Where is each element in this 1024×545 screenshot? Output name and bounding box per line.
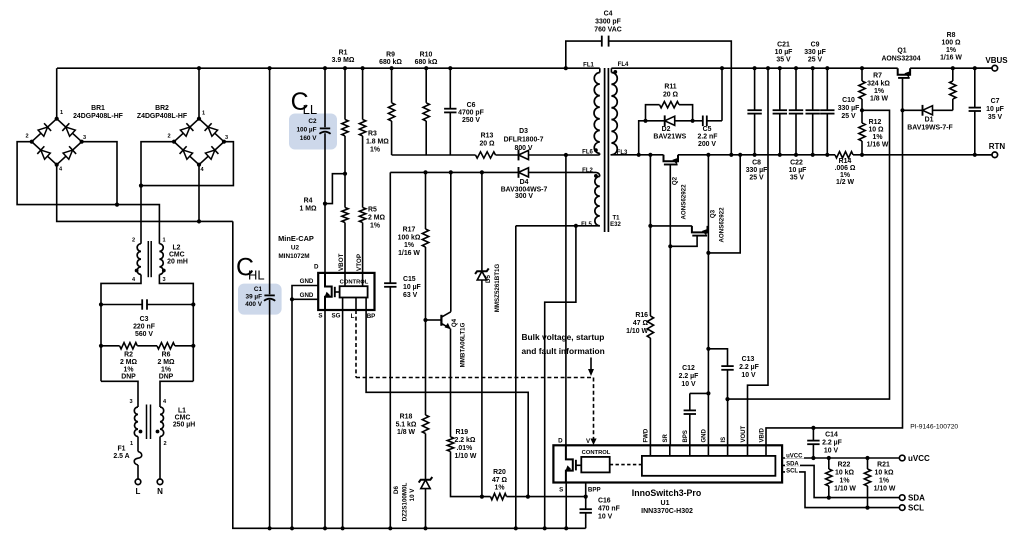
svg-text:100 µF: 100 µF: [296, 127, 316, 134]
svg-text:47 Ω: 47 Ω: [492, 477, 508, 484]
svg-text:25 V: 25 V: [841, 113, 856, 120]
terminal RTN: [975, 154, 992, 156]
wire Q3 drain line: [650, 225, 692, 227]
svg-text:300 V: 300 V: [515, 193, 533, 200]
resistor R2: [101, 345, 120, 347]
svg-text:25 V: 25 V: [749, 175, 764, 182]
resistor R11: [646, 105, 660, 121]
resistor R9: [391, 68, 393, 103]
wire R1/R4 junction to D node: [325, 174, 345, 204]
svg-text:760 VAC: 760 VAC: [594, 27, 621, 34]
wire U1 BPP pin: [585, 483, 587, 510]
svg-text:2: 2: [25, 134, 28, 140]
svg-text:1/10 W: 1/10 W: [455, 453, 477, 460]
svg-text:CMC: CMC: [169, 252, 185, 259]
node junctions on bias line: [423, 170, 427, 174]
wire L2 pin3 to filter loop right: [159, 275, 193, 382]
svg-text:39 µF: 39 µF: [246, 294, 263, 301]
svg-text:4700 pF: 4700 pF: [458, 110, 484, 117]
svg-text:F1: F1: [117, 446, 125, 453]
wire FL5 jog to ground rail: [545, 226, 576, 529]
node R1/R4 junction: [343, 172, 347, 176]
svg-text:C2: C2: [308, 118, 317, 125]
wire BR2 pin3 to AC node: [141, 142, 233, 186]
svg-text:800 V: 800 V: [514, 145, 532, 152]
wire U2 S pin to ground: [324, 310, 326, 528]
svg-text:10 V: 10 V: [741, 372, 756, 379]
wire primary ground bottom rail: [233, 221, 586, 528]
svg-text:47 Ω: 47 Ω: [633, 320, 649, 327]
capacitor C9: [812, 68, 814, 110]
wire U1 drain riser: [565, 155, 567, 445]
svg-text:220 nF: 220 nF: [133, 324, 155, 331]
svg-text:BR2: BR2: [155, 105, 169, 112]
svg-text:324 kΩ: 324 kΩ: [867, 81, 890, 88]
svg-text:2 MΩ: 2 MΩ: [120, 359, 137, 366]
svg-text:R22: R22: [838, 462, 851, 469]
U1 internal interface block: [642, 456, 776, 476]
svg-text:S: S: [318, 313, 322, 320]
capacitor C16: [580, 508, 592, 510]
svg-text:100 Ω: 100 Ω: [942, 40, 961, 47]
diode D1: [903, 109, 953, 111]
svg-text:C8: C8: [752, 160, 761, 167]
svg-text:R7: R7: [873, 73, 882, 80]
resistor R20: [491, 493, 507, 499]
node junctions on B+ bus: [197, 66, 201, 70]
svg-text:E32: E32: [610, 222, 621, 228]
svg-text:BP: BP: [367, 313, 376, 320]
svg-text:R6: R6: [162, 352, 171, 359]
svg-text:SR: SR: [663, 433, 669, 442]
svg-text:3: 3: [129, 399, 132, 405]
svg-text:L: L: [351, 313, 355, 320]
svg-text:Q3: Q3: [710, 209, 717, 218]
svg-text:.006 Ω: .006 Ω: [835, 165, 856, 172]
svg-text:680 kΩ: 680 kΩ: [415, 59, 438, 66]
capacitor C21: [779, 68, 781, 110]
svg-text:680 kΩ: 680 kΩ: [379, 59, 402, 66]
svg-text:D3: D3: [519, 128, 528, 135]
dashed link control to interface block: [610, 464, 642, 466]
transistor Q3 SR FET: [692, 226, 708, 233]
transformer T1 core: [604, 68, 606, 232]
svg-text:HL: HL: [248, 267, 265, 282]
svg-text:VBOT: VBOT: [338, 253, 345, 271]
svg-text:MMSZ5261BT1G: MMSZ5261BT1G: [494, 264, 501, 313]
svg-text:AONS62922: AONS62922: [681, 184, 688, 220]
svg-text:R9: R9: [386, 52, 395, 59]
resistor R10: [425, 68, 427, 103]
U2 internal control block: [340, 286, 368, 297]
svg-text:1%: 1%: [370, 223, 380, 230]
svg-text:and fault information: and fault information: [522, 346, 605, 356]
node D/C2 junction: [323, 202, 327, 206]
svg-text:Q2: Q2: [672, 176, 679, 185]
svg-text:DFLR1800-7: DFLR1800-7: [504, 137, 544, 144]
svg-text:1%: 1%: [874, 88, 884, 95]
svg-text:1 MΩ: 1 MΩ: [299, 206, 316, 213]
node Q4 base junction: [423, 318, 427, 322]
svg-text:uVCC: uVCC: [908, 454, 930, 463]
transformer T1 secondary winding FL4-FL3: [610, 68, 612, 72]
svg-text:DNP: DNP: [121, 374, 136, 381]
resistor R8: [952, 99, 954, 110]
svg-text:C7: C7: [991, 98, 1000, 105]
inductor L1 CMC: [134, 407, 138, 437]
svg-text:FL1: FL1: [583, 63, 594, 69]
svg-text:L2: L2: [172, 245, 180, 252]
svg-text:35 V: 35 V: [790, 175, 805, 182]
wire U2 GND pins to ground: [292, 286, 318, 300]
resistor R5: [359, 208, 365, 223]
svg-text:BPS: BPS: [683, 430, 689, 442]
svg-text:R5: R5: [368, 207, 377, 214]
wire BR1 pin2 to AC node (left loop): [17, 142, 159, 244]
svg-text:MinE-CAP: MinE-CAP: [278, 234, 314, 243]
svg-text:2.2 µF: 2.2 µF: [679, 373, 699, 380]
wire Q1 gate line: [902, 78, 904, 110]
resistor R14 shunt: [835, 152, 853, 158]
svg-text:LL: LL: [303, 102, 317, 117]
svg-text:R13: R13: [481, 133, 494, 140]
svg-text:BAV19WS-7-F: BAV19WS-7-F: [907, 125, 952, 132]
svg-text:D2: D2: [662, 126, 671, 133]
svg-text:InnoSwitch3-Pro: InnoSwitch3-Pro: [632, 488, 702, 498]
wire SCL: [782, 472, 899, 508]
svg-text:330 µF: 330 µF: [804, 49, 826, 56]
resistor R22: [828, 458, 830, 469]
transistor Q4: [426, 319, 442, 321]
svg-text:1/8 W: 1/8 W: [397, 429, 415, 436]
wire B+ top bus (primary): [57, 67, 600, 69]
svg-text:1%: 1%: [879, 478, 889, 485]
svg-text:IS: IS: [721, 437, 727, 443]
capacitor C10: [826, 68, 828, 110]
resistor R21: [867, 458, 869, 469]
svg-text:1/2 W: 1/2 W: [836, 179, 854, 186]
resistor R1: [344, 68, 346, 119]
svg-text:Bulk voltage, startup: Bulk voltage, startup: [522, 332, 605, 342]
svg-text:200 V: 200 V: [698, 141, 716, 148]
wire BR2 pin2 down to L2 pin 2: [141, 142, 174, 244]
inductor L2 CMC: [137, 244, 141, 275]
U2 internal MOSFET: [325, 273, 332, 310]
svg-text:C1: C1: [254, 286, 263, 293]
svg-text:C9: C9: [811, 42, 820, 49]
svg-text:VTOP: VTOP: [356, 254, 363, 271]
svg-text:10 V: 10 V: [681, 381, 696, 388]
wire BR1 pin1 to B+ bus: [56, 68, 58, 119]
transformer T1 primary winding FL1-FL6: [599, 68, 601, 72]
wire Q3 source / GND return: [707, 155, 709, 446]
svg-text:1/16 W: 1/16 W: [867, 142, 889, 149]
svg-text:CMC: CMC: [175, 415, 191, 422]
capacitor C6: [449, 68, 451, 109]
svg-text:160 V: 160 V: [300, 135, 317, 142]
capacitor C7: [974, 68, 976, 107]
svg-text:R19: R19: [456, 429, 469, 436]
wire uVCC: [782, 457, 899, 459]
svg-text:1%: 1%: [873, 134, 883, 141]
wire snubber left leg: [639, 121, 646, 155]
svg-text:.01%: .01%: [457, 445, 473, 452]
svg-text:10 Ω: 10 Ω: [868, 127, 884, 134]
svg-text:C3: C3: [140, 316, 149, 323]
svg-text:VB/D: VB/D: [760, 427, 766, 442]
capacitor C2 (highlighted): [324, 68, 326, 127]
svg-text:25 V: 25 V: [808, 57, 823, 64]
svg-text:R11: R11: [664, 84, 676, 91]
svg-text:R1: R1: [339, 50, 348, 57]
highlight box for C1: [238, 284, 282, 315]
svg-text:Q1: Q1: [897, 48, 906, 55]
svg-text:FL2: FL2: [582, 168, 593, 174]
svg-text:2.2 µF: 2.2 µF: [739, 364, 759, 371]
diode D4: [519, 168, 529, 177]
svg-text:SCL: SCL: [908, 504, 924, 513]
terminal N: [157, 479, 163, 485]
svg-text:2.5 A: 2.5 A: [113, 453, 129, 460]
node junctions on bottom rail: [268, 526, 272, 530]
svg-text:1: 1: [130, 441, 133, 447]
wire L1 pin2 to N terminal: [159, 437, 161, 480]
svg-text:250 µH: 250 µH: [173, 422, 195, 429]
wire BR2 pin4 down: [198, 165, 200, 221]
svg-text:35 V: 35 V: [776, 57, 791, 64]
capacitor C13: [706, 347, 710, 351]
svg-text:C12: C12: [682, 365, 695, 372]
resistor R3: [362, 68, 364, 119]
svg-text:AONS62922: AONS62922: [719, 207, 726, 243]
svg-text:470 nF: 470 nF: [598, 506, 620, 513]
svg-text:DNP: DNP: [159, 374, 174, 381]
transformer T1 bias winding FL2-FL5: [595, 176, 600, 225]
svg-text:100 kΩ: 100 kΩ: [398, 234, 421, 241]
fuse F1: [137, 437, 139, 452]
svg-text:20 Ω: 20 Ω: [663, 92, 679, 99]
wire C15 branch: [391, 154, 393, 156]
svg-text:20 mH: 20 mH: [167, 259, 188, 266]
wire FWD line: [649, 155, 651, 316]
svg-text:3.9 MΩ: 3.9 MΩ: [332, 57, 355, 64]
svg-text:2 MΩ: 2 MΩ: [157, 359, 174, 366]
resistor R13: [476, 152, 496, 158]
capacitor C4 (Y-cap): [566, 41, 602, 68]
svg-text:330 µF: 330 µF: [838, 105, 860, 112]
svg-text:R2: R2: [124, 352, 133, 359]
svg-text:10 V: 10 V: [598, 514, 613, 521]
svg-text:T1: T1: [612, 216, 620, 222]
wire filter loop to L1 pin4: [160, 381, 193, 407]
capacitor C5: [693, 120, 703, 122]
svg-text:1.8 MΩ: 1.8 MΩ: [366, 139, 389, 146]
svg-text:1%: 1%: [124, 366, 134, 373]
wire VOUT sense divider line: [728, 110, 890, 399]
wire U2 BP pin to R20: [366, 298, 528, 497]
U1 internal control block: [581, 457, 609, 473]
capacitor C1 (highlighted): [269, 68, 271, 294]
svg-text:10 µF: 10 µF: [986, 106, 1004, 113]
svg-text:C14: C14: [825, 432, 838, 439]
terminal L: [135, 479, 141, 485]
svg-text:SDA: SDA: [908, 494, 925, 503]
bridge rectifier BR1: [32, 119, 82, 165]
wire L2 pin4 to filter loop left: [101, 275, 141, 382]
resistor R7: [861, 68, 863, 81]
svg-text:L: L: [136, 487, 141, 496]
wire U1 S pin to ground: [565, 483, 567, 529]
svg-text:MMBTA06LT1G: MMBTA06LT1G: [460, 322, 467, 367]
svg-text:R8: R8: [947, 32, 956, 39]
wire filter loop to L1 pin3: [101, 381, 138, 407]
svg-text:3300 pF: 3300 pF: [595, 19, 621, 26]
svg-text:U2: U2: [291, 245, 300, 252]
svg-text:2.2 kΩ: 2.2 kΩ: [455, 437, 476, 444]
svg-text:CONTROL: CONTROL: [340, 280, 369, 286]
svg-text:FL6: FL6: [582, 150, 593, 156]
zener diode D5: [481, 172, 483, 271]
svg-text:Q4: Q4: [451, 318, 458, 327]
annotation arrow: [590, 358, 592, 370]
svg-text:1: 1: [60, 110, 63, 116]
wire BR2 pin1 to B+ bus: [198, 68, 200, 119]
wire SDA: [782, 465, 899, 497]
svg-text:R3: R3: [368, 131, 377, 138]
resistor R12: [861, 110, 863, 123]
resistor R18: [422, 415, 428, 434]
svg-text:2.2 µF: 2.2 µF: [822, 440, 842, 447]
svg-text:FL5: FL5: [581, 222, 592, 228]
svg-text:5.1 kΩ: 5.1 kΩ: [396, 422, 417, 429]
svg-text:SDA: SDA: [786, 461, 799, 467]
svg-text:560 V: 560 V: [135, 331, 153, 338]
svg-text:CONTROL: CONTROL: [582, 450, 611, 456]
svg-text:DZ2S100M0L: DZ2S100M0L: [402, 483, 409, 522]
svg-text:400 V: 400 V: [245, 301, 262, 308]
svg-text:D4: D4: [520, 179, 529, 186]
zener diode D6: [425, 470, 427, 480]
node FL5 jog junction: [574, 224, 578, 228]
svg-text:C10: C10: [842, 97, 855, 104]
svg-text:330 µF: 330 µF: [746, 167, 768, 174]
resistor R6: [157, 343, 175, 349]
wire BR1/BR2 pin4 negative to bottom rail: [57, 165, 233, 222]
terminal VBUS: [975, 67, 992, 69]
svg-text:R20: R20: [493, 469, 506, 476]
resistor R19: [447, 437, 453, 452]
transistor Q1 load switch: [898, 68, 910, 75]
capacitor C12 on BPS: [689, 414, 691, 445]
svg-text:D: D: [314, 264, 319, 271]
svg-text:BAV21WS: BAV21WS: [653, 134, 686, 141]
svg-text:GND: GND: [300, 278, 314, 285]
svg-text:AONS32304: AONS32304: [881, 56, 920, 63]
svg-text:10 µF: 10 µF: [789, 167, 807, 174]
svg-text:C16: C16: [598, 498, 611, 505]
svg-text:20 Ω: 20 Ω: [479, 141, 495, 148]
transistor Q2 SR FET: [664, 155, 679, 162]
svg-text:35 V: 35 V: [988, 114, 1003, 121]
wire Q2 gate to SR line: [669, 165, 671, 247]
IC U2 MinE-CAP outline: [318, 273, 374, 310]
svg-text:SCL: SCL: [786, 468, 798, 474]
wire output+ top bus (secondary): [611, 67, 897, 69]
dashed wire U2 L pin to U1 V pin: [356, 377, 594, 379]
wire BR1 pin3 to AC node: [82, 142, 117, 205]
U1 top pin stubs: [649, 445, 651, 456]
IC U1 InnoSwitch3-Pro outline: [553, 445, 782, 482]
svg-text:C22: C22: [790, 160, 803, 167]
svg-text:1%: 1%: [946, 47, 956, 54]
svg-text:1%: 1%: [370, 147, 380, 154]
diode D2: [646, 120, 693, 122]
bridge rectifier BR2: [174, 119, 224, 165]
highlight box for C2: [289, 114, 337, 150]
svg-text:D5: D5: [485, 274, 492, 282]
svg-text:1/10 W: 1/10 W: [626, 328, 648, 335]
diode D3: [519, 150, 529, 159]
wire RTN / SR-drain horizontal rail: [611, 154, 664, 156]
capacitor C14: [812, 428, 814, 441]
svg-text:FL4: FL4: [618, 62, 629, 68]
svg-text:FL3: FL3: [617, 150, 628, 156]
svg-text:63 V: 63 V: [403, 292, 418, 299]
svg-text:2.2 nF: 2.2 nF: [698, 134, 718, 141]
svg-text:FWD: FWD: [643, 428, 649, 442]
svg-text:1%: 1%: [404, 242, 414, 249]
svg-text:R4: R4: [304, 198, 313, 205]
svg-text:PI-9146-100720: PI-9146-100720: [910, 424, 958, 431]
wire FL5 to primary ground: [516, 225, 600, 227]
svg-text:U1: U1: [661, 500, 670, 507]
svg-text:C6: C6: [467, 102, 476, 109]
svg-text:VOUT: VOUT: [741, 425, 747, 442]
svg-text:SG: SG: [332, 313, 341, 320]
wire IS pin to sense line: [727, 399, 729, 445]
svg-text:L1: L1: [178, 408, 186, 415]
svg-text:24DGP408L-HF: 24DGP408L-HF: [73, 113, 123, 120]
resistor R4: [342, 208, 348, 223]
capacitor C8: [754, 68, 756, 110]
resistor R16: [647, 316, 653, 338]
svg-text:1/16 W: 1/16 W: [398, 250, 420, 257]
svg-text:Z4DGP408L-HF: Z4DGP408L-HF: [137, 113, 187, 120]
svg-text:C13: C13: [742, 356, 755, 363]
wire clamp node to FL6 with R13 and D3: [392, 154, 476, 156]
svg-text:10 kΩ: 10 kΩ: [875, 470, 894, 477]
node junctions on output+ bus: [720, 66, 724, 70]
svg-text:1/16 W: 1/16 W: [940, 55, 962, 62]
svg-text:R18: R18: [400, 414, 413, 421]
wire SR pin line: [669, 246, 671, 445]
resistor R17: [425, 172, 427, 229]
svg-text:VBUS: VBUS: [985, 56, 1008, 65]
capacitor C3: [101, 304, 142, 306]
svg-text:10 V: 10 V: [824, 448, 839, 455]
svg-text:S: S: [559, 487, 563, 494]
svg-text:C4: C4: [604, 11, 613, 18]
U1 internal primary MOSFET: [566, 445, 573, 482]
svg-text:D: D: [558, 437, 563, 444]
node junctions on RTN rail: [637, 153, 641, 157]
svg-text:R16: R16: [635, 312, 648, 319]
svg-text:uVCC: uVCC: [786, 454, 803, 460]
wire VOUT pin to output bus: [748, 68, 769, 445]
svg-text:C5: C5: [703, 126, 712, 133]
right side pin labels of U1: [785, 452, 804, 459]
svg-text:3: 3: [225, 135, 228, 141]
